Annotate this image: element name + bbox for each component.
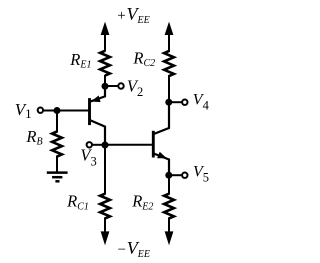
wire: V1 to Q1 base	[44, 110, 89, 112]
terminal V1 (open circle)	[38, 108, 43, 113]
terminal V2 (open circle)	[118, 83, 123, 88]
wire: V2 stub	[105, 85, 118, 87]
wire: R_C2 bottom to V4 node	[168, 75, 170, 102]
-VEE supply arrow (left branch)	[101, 231, 110, 245]
wire: R_E1 bottom to V2 node	[104, 75, 106, 87]
svg-text:+VEE: +VEE	[116, 4, 149, 26]
svg-text:RE1: RE1	[69, 50, 91, 71]
-VEE supply arrow (right branch)	[165, 231, 174, 245]
wire: V3 node down to R_C1	[104, 145, 106, 195]
ground	[47, 173, 68, 182]
svg-text:V5: V5	[193, 163, 209, 184]
svg-text:V3: V3	[80, 146, 96, 169]
svg-text:V4: V4	[193, 92, 210, 113]
transistor Q1 (PNP)	[90, 87, 106, 146]
resistor RB	[52, 132, 62, 157]
+VEE supply arrow (left branch)	[101, 22, 110, 35]
node: junction dot at V4	[165, 99, 172, 106]
wire: R_E2 to -VEE arrow	[168, 218, 170, 237]
wire: V4 stub	[169, 101, 182, 103]
terminal V3 (open circle)	[87, 142, 92, 147]
wire: V5 node to R_E2	[168, 175, 170, 195]
svg-text:−VEE: −VEE	[117, 238, 150, 260]
terminal V4 (open circle)	[182, 100, 187, 105]
wire: +VEE arrow to R_E1 top	[104, 30, 106, 52]
transistor Q2 (NPN)	[153, 102, 169, 175]
node: junction dot at V3	[102, 142, 109, 149]
resistor R_C1	[100, 194, 110, 219]
wire: V3 stub to terminal	[93, 144, 105, 146]
svg-text:RC2: RC2	[132, 48, 155, 69]
node: junction dot at V1/RB	[54, 107, 61, 114]
svg-text:RE2: RE2	[131, 192, 153, 213]
svg-text:V1: V1	[15, 100, 32, 121]
wire: RB top	[56, 111, 58, 133]
node: junction dot at V5	[165, 172, 172, 179]
wire: V5 stub	[169, 174, 182, 176]
svg-text:RB: RB	[25, 127, 42, 148]
terminal V5 (open circle)	[182, 173, 187, 178]
resistor R_E2	[164, 194, 174, 219]
svg-text:V2: V2	[127, 77, 143, 99]
resistor R_C2	[164, 51, 174, 76]
wire: R_C1 to -VEE arrow	[104, 218, 106, 237]
svg-text:RC1: RC1	[66, 192, 89, 213]
+VEE supply arrow (right branch)	[165, 22, 174, 35]
node: junction dot at V2	[102, 83, 109, 90]
wire: RB bottom to ground	[56, 156, 58, 173]
wire: R_C2 top to +VEE arrow	[168, 30, 170, 52]
wire: V3 node to Q2 base	[105, 144, 152, 146]
resistor R_E1	[100, 51, 110, 76]
